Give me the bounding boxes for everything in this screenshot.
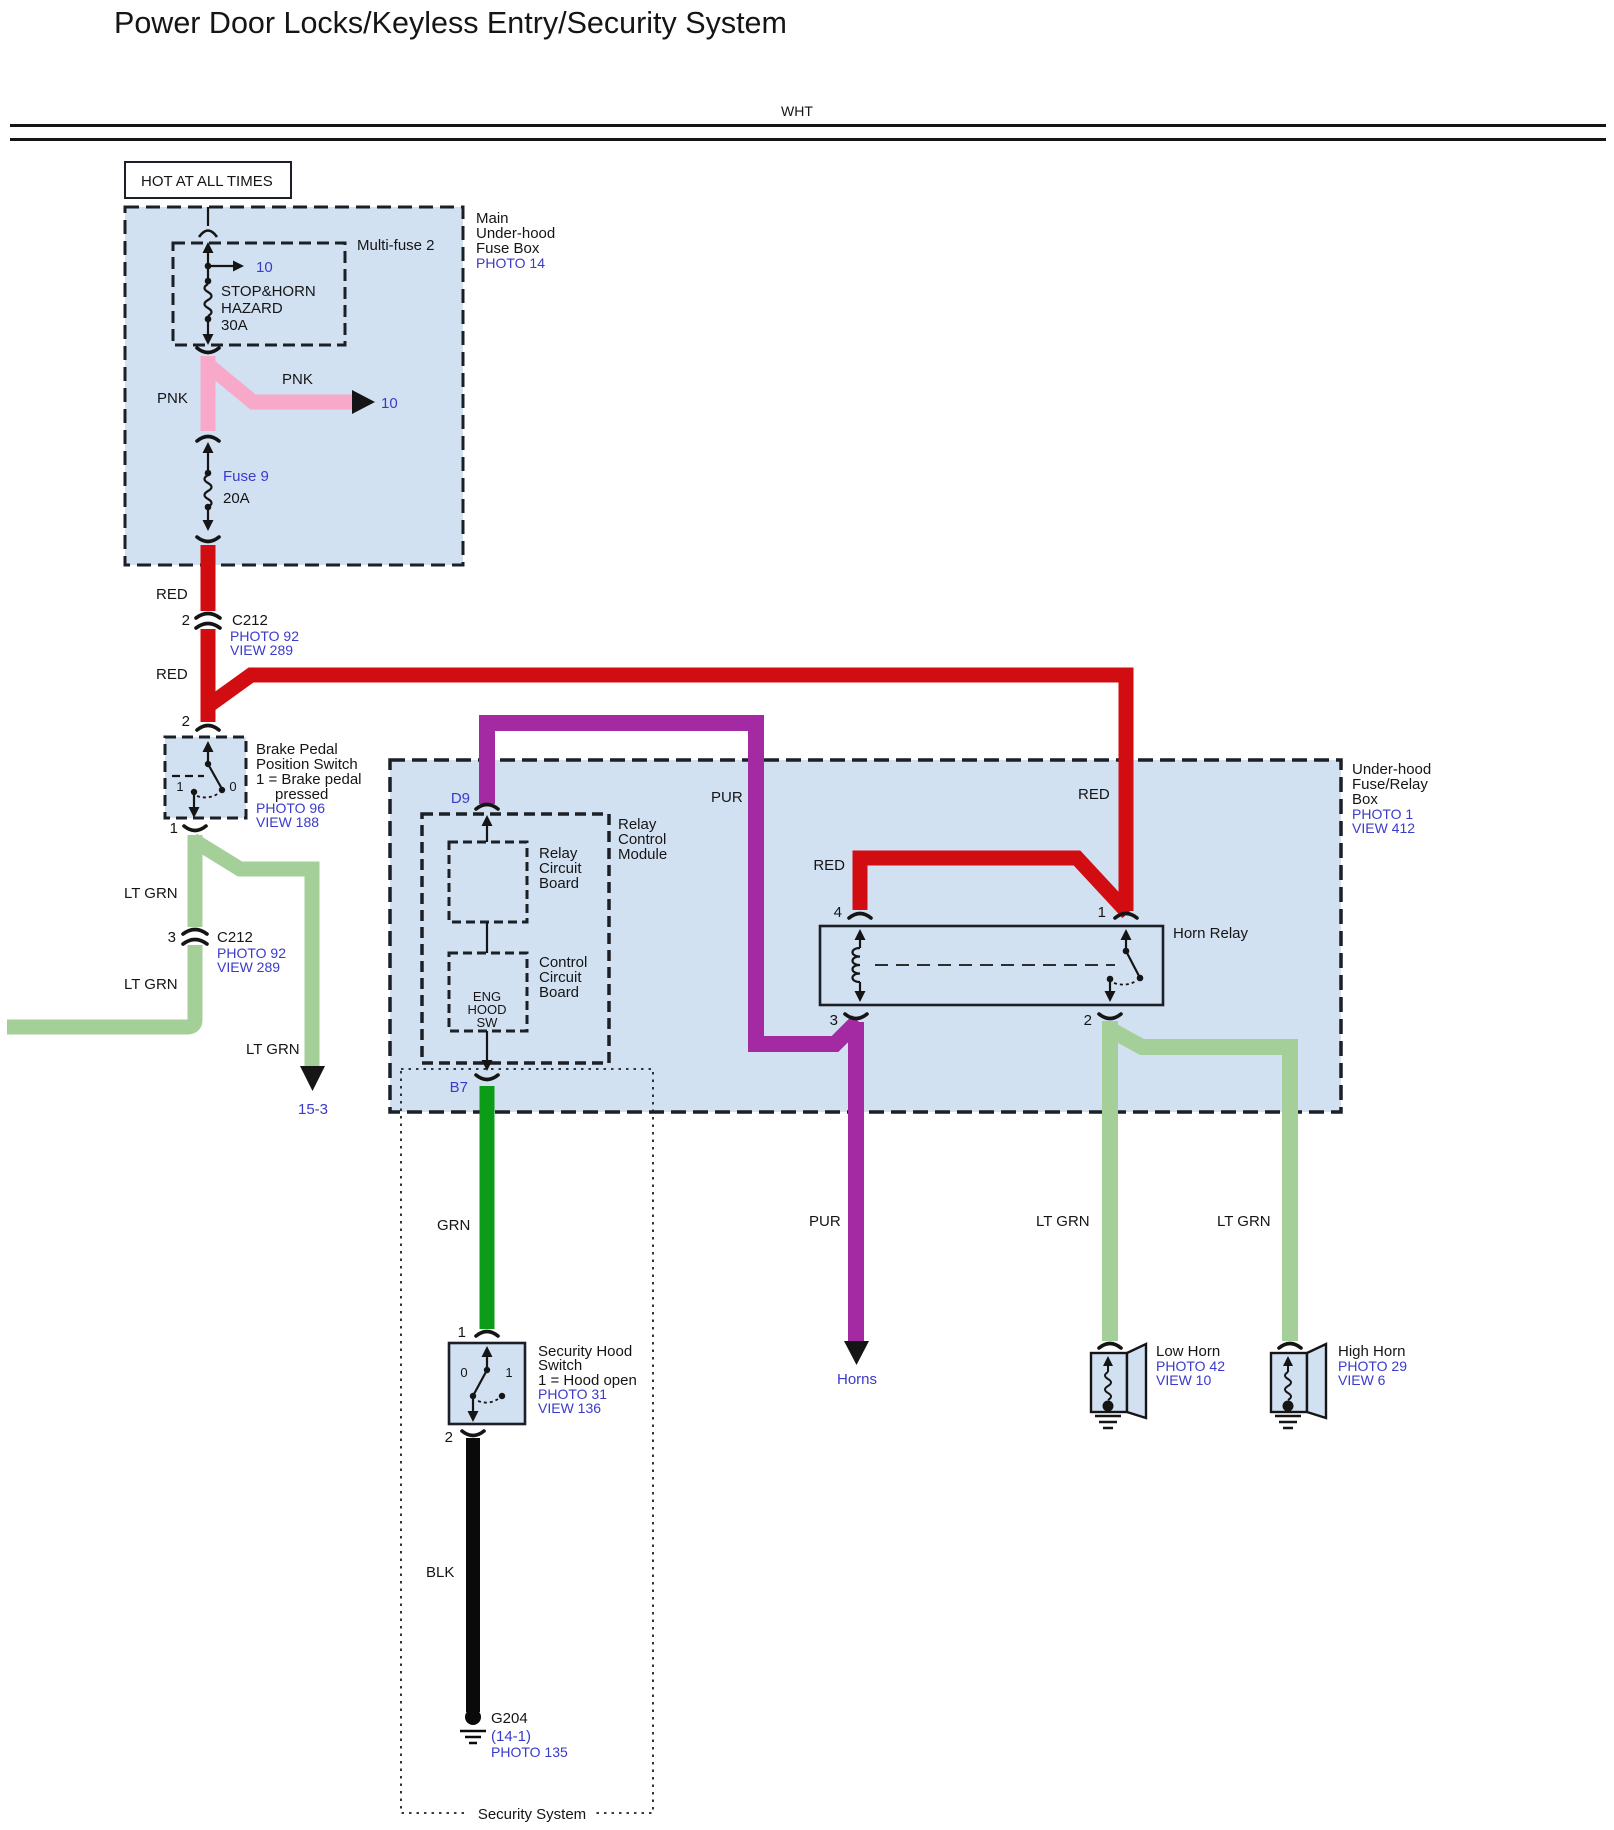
svg-text:RED: RED — [156, 586, 188, 603]
svg-text:2: 2 — [182, 612, 190, 629]
svg-text:2: 2 — [445, 1429, 453, 1446]
svg-text:(14-1): (14-1) — [491, 1728, 531, 1745]
svg-text:VIEW 188: VIEW 188 — [256, 814, 319, 830]
svg-text:Power Door Locks/Keyless Entry: Power Door Locks/Keyless Entry/Security … — [114, 6, 787, 40]
svg-text:HAZARD: HAZARD — [221, 300, 283, 317]
svg-text:LT GRN: LT GRN — [246, 1041, 300, 1058]
svg-text:1: 1 — [505, 1365, 512, 1380]
svg-text:LT GRN: LT GRN — [1036, 1213, 1090, 1230]
svg-text:PUR: PUR — [809, 1213, 841, 1230]
svg-text:1: 1 — [458, 1324, 466, 1341]
svg-text:3: 3 — [168, 929, 176, 946]
svg-text:C212: C212 — [217, 929, 253, 946]
svg-text:RED: RED — [813, 857, 845, 874]
svg-text:Horn Relay: Horn Relay — [1173, 925, 1249, 942]
svg-text:VIEW 289: VIEW 289 — [230, 642, 293, 658]
svg-text:Module: Module — [618, 846, 667, 863]
svg-text:PNK: PNK — [282, 371, 313, 388]
svg-text:0: 0 — [229, 779, 236, 794]
svg-text:PUR: PUR — [711, 789, 743, 806]
svg-text:BLK: BLK — [426, 1564, 454, 1581]
svg-text:VIEW 412: VIEW 412 — [1352, 820, 1415, 836]
svg-text:1: 1 — [1098, 904, 1106, 921]
svg-text:1: 1 — [170, 820, 178, 837]
svg-text:PNK: PNK — [157, 390, 188, 407]
svg-text:PHOTO 135: PHOTO 135 — [491, 1744, 568, 1760]
svg-text:1: 1 — [176, 779, 183, 794]
svg-text:VIEW 10: VIEW 10 — [1156, 1372, 1211, 1388]
svg-text:G204: G204 — [491, 1710, 528, 1727]
svg-text:3: 3 — [830, 1012, 838, 1029]
svg-text:PHOTO 14: PHOTO 14 — [476, 255, 545, 271]
svg-text:WHT: WHT — [781, 103, 813, 119]
svg-text:30A: 30A — [221, 317, 248, 334]
svg-text:LT GRN: LT GRN — [124, 976, 178, 993]
svg-text:RED: RED — [156, 666, 188, 683]
svg-text:10: 10 — [256, 259, 273, 276]
svg-text:GRN: GRN — [437, 1217, 470, 1234]
svg-text:RED: RED — [1078, 786, 1110, 803]
svg-text:Multi-fuse 2: Multi-fuse 2 — [357, 237, 435, 254]
svg-text:HOT AT ALL TIMES: HOT AT ALL TIMES — [141, 173, 273, 190]
svg-text:D9: D9 — [451, 790, 470, 807]
svg-text:Horns: Horns — [837, 1371, 877, 1388]
svg-text:2: 2 — [1084, 1012, 1092, 1029]
svg-text:SW: SW — [477, 1015, 499, 1030]
svg-text:Board: Board — [539, 875, 579, 892]
svg-text:10: 10 — [381, 395, 398, 412]
svg-text:0: 0 — [460, 1365, 467, 1380]
svg-text:STOP&HORN: STOP&HORN — [221, 283, 316, 300]
svg-text:15-3: 15-3 — [298, 1101, 328, 1118]
svg-text:LT GRN: LT GRN — [1217, 1213, 1271, 1230]
svg-text:C212: C212 — [232, 612, 268, 629]
svg-text:VIEW 136: VIEW 136 — [538, 1400, 601, 1416]
svg-text:VIEW 6: VIEW 6 — [1338, 1372, 1386, 1388]
svg-text:2: 2 — [182, 713, 190, 730]
svg-text:20A: 20A — [223, 490, 250, 507]
svg-text:LT GRN: LT GRN — [124, 885, 178, 902]
svg-text:4: 4 — [834, 904, 842, 921]
svg-text:Fuse 9: Fuse 9 — [223, 468, 269, 485]
svg-text:Board: Board — [539, 984, 579, 1001]
svg-text:Security System: Security System — [478, 1806, 586, 1823]
svg-text:B7: B7 — [450, 1079, 468, 1096]
svg-text:VIEW 289: VIEW 289 — [217, 959, 280, 975]
